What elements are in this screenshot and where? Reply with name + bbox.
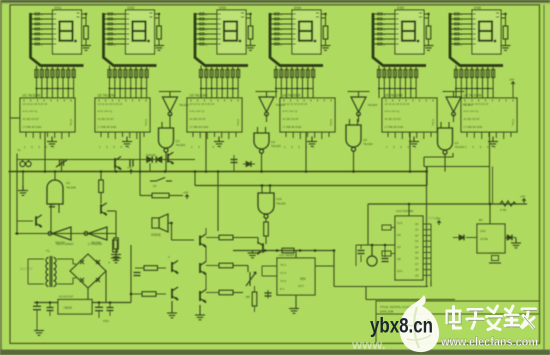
junction xyxy=(98,301,101,304)
svg-text:74LS: 74LS xyxy=(511,119,515,126)
watermark leaf logo xyxy=(400,295,439,352)
feedback wire xyxy=(452,153,454,157)
display DS6 cathode bus xyxy=(455,88,493,90)
wire xyxy=(115,211,117,238)
svg-text:Q3: Q3 xyxy=(397,245,401,249)
ground left xyxy=(18,186,28,196)
svg-text:www.: www. xyxy=(351,337,385,352)
ground for DS1 xyxy=(81,46,91,51)
display DS5 segment wires a-g xyxy=(373,13,395,47)
svg-text:A1 B2 C6 D7: A1 B2 C6 D7 xyxy=(385,117,402,121)
border left band xyxy=(0,0,2,355)
wire bus to audio driver xyxy=(217,172,219,232)
NAND U8B input wire xyxy=(265,127,267,133)
schematic frame right outer line xyxy=(543,5,545,350)
svg-text:Q8: Q8 xyxy=(397,257,401,261)
NAND U8A input wire xyxy=(161,122,163,128)
crystal oscillator module B1 xyxy=(477,224,505,253)
ground R21 xyxy=(111,254,121,263)
wire xyxy=(100,193,102,204)
wire xyxy=(492,167,494,205)
display DS1 cathode bus xyxy=(36,88,74,90)
feedback wire xyxy=(424,166,490,168)
wire to inverter U7B xyxy=(266,92,268,98)
potentiometer RP1 xyxy=(246,272,256,286)
wire xyxy=(61,160,63,172)
svg-text:DS2: DS2 xyxy=(128,6,135,10)
svg-text:DATE 2008: DATE 2008 xyxy=(380,310,394,314)
wire xyxy=(73,277,76,279)
wire xyxy=(295,251,297,259)
trimmer capacitor C1 xyxy=(56,160,67,168)
wire xyxy=(49,311,51,317)
current-limit resistor R6 xyxy=(501,13,508,45)
bus timebase xyxy=(368,203,527,205)
wire +5V rail xyxy=(130,245,132,303)
resistor R18 xyxy=(282,248,294,253)
wire xyxy=(254,306,256,312)
7-segment display DS6 xyxy=(472,6,501,54)
wire xyxy=(453,237,459,239)
wire xyxy=(408,204,410,216)
NAND U8C input wire xyxy=(357,119,359,125)
svg-text:74LS04: 74LS04 xyxy=(368,103,378,107)
wire xyxy=(140,195,152,197)
junction on bus xyxy=(54,170,57,173)
svg-text:U11 NE555: U11 NE555 xyxy=(279,253,295,257)
transformer T1 xyxy=(46,256,56,287)
junction xyxy=(109,301,112,304)
wire to U10 xyxy=(269,186,271,194)
AND gate G1 74LS08 xyxy=(47,180,63,204)
wire to inverter U7A xyxy=(169,92,171,98)
wire U5 to bus xyxy=(409,132,411,172)
svg-text:DS5: DS5 xyxy=(397,6,404,10)
wire inverter chain xyxy=(15,233,116,235)
ground under U3 xyxy=(214,137,224,147)
svg-text:470u: 470u xyxy=(103,319,109,323)
svg-text:a b c d e f g: a b c d e f g xyxy=(190,109,205,113)
IC U12 output pins xyxy=(415,223,431,281)
svg-text:VOICE: VOICE xyxy=(151,233,161,237)
IC U6 74LS248 xyxy=(461,94,517,133)
wire xyxy=(109,311,111,317)
long wire right column xyxy=(426,167,428,287)
ground for DS2 xyxy=(154,46,164,51)
inverter U7A 74LS04 xyxy=(163,97,178,116)
wire xyxy=(262,275,277,277)
wire at inverter U7A input xyxy=(159,91,181,93)
wire left column xyxy=(16,154,18,234)
ground PSU xyxy=(34,331,44,336)
junction xyxy=(489,203,492,206)
wire U1 to bus xyxy=(44,132,46,172)
ground V5 xyxy=(248,250,258,258)
ground V10 xyxy=(167,301,177,318)
junction on bus xyxy=(164,170,167,173)
wire xyxy=(171,223,173,240)
wire xyxy=(57,283,73,285)
display DS1 segment wires a-g xyxy=(31,13,53,47)
bus DC xyxy=(34,302,131,304)
wire xyxy=(205,275,207,290)
svg-text:A1 B2 C6 D7: A1 B2 C6 D7 xyxy=(98,117,115,121)
resistor network RN2 xyxy=(108,66,148,99)
resistor network RN1 xyxy=(35,66,75,99)
capacitor C3 xyxy=(49,204,55,207)
wire xyxy=(205,247,207,262)
transistor V3 9013 xyxy=(101,203,107,215)
IC U5 74LS248 xyxy=(382,94,437,133)
svg-text:OSC: OSC xyxy=(480,229,486,233)
capacitor C8 electrolytic xyxy=(367,245,377,266)
ground under U5 xyxy=(409,137,419,147)
svg-text:74LS04: 74LS04 xyxy=(463,103,473,107)
wire xyxy=(261,266,263,276)
junction on bus xyxy=(305,170,308,173)
junction on bus xyxy=(205,170,208,173)
NAND U8A output wire xyxy=(165,152,167,171)
svg-text:CLK: CLK xyxy=(397,221,403,225)
svg-text:ybx8.cn: ybx8.cn xyxy=(370,315,433,338)
svg-text:OUT: OUT xyxy=(298,284,304,288)
bridge rectifier VD1-VD4 xyxy=(70,254,106,288)
wire xyxy=(253,250,258,252)
wire xyxy=(172,239,195,241)
wire xyxy=(356,244,395,246)
inverter U7C output wire xyxy=(358,114,360,122)
svg-text:A1 B2 C6 D7: A1 B2 C6 D7 xyxy=(23,117,40,121)
inverter U9B 74LS04 xyxy=(84,227,107,240)
junction xyxy=(49,301,52,304)
junction xyxy=(264,249,267,252)
7-segment display DS1 xyxy=(53,6,82,54)
NAND U8B input wire xyxy=(257,127,259,133)
resistor R16 xyxy=(144,266,158,271)
junction on bus xyxy=(194,170,197,173)
wire xyxy=(360,245,362,249)
NAND gate U8D 74LS20 xyxy=(438,128,453,154)
svg-text:U2 74LS248: U2 74LS248 xyxy=(98,94,116,98)
svg-text:A1 B2 C6 D7: A1 B2 C6 D7 xyxy=(190,117,207,121)
wire xyxy=(36,303,38,307)
+5V at R10 xyxy=(185,195,189,200)
svg-text:LT RBI BI GND: LT RBI BI GND xyxy=(190,125,209,129)
ground under U1 xyxy=(47,137,57,147)
wire oscillator row xyxy=(17,159,195,161)
capacitor C5 xyxy=(134,273,141,276)
junction xyxy=(371,244,374,247)
NAND U8D output wire xyxy=(444,154,446,171)
svg-text:S1: S1 xyxy=(153,184,157,188)
junction on bus xyxy=(44,170,47,173)
+5V above U6 xyxy=(511,82,515,87)
resistor R14 xyxy=(219,263,233,268)
wire xyxy=(233,237,258,239)
svg-text:13 12 11 10 9 15 14: 13 12 11 10 9 15 14 xyxy=(23,102,48,106)
svg-text:DS6: DS6 xyxy=(474,6,481,10)
wire xyxy=(139,172,141,196)
watermark brand glyphs 电子发烧友 xyxy=(447,306,536,330)
transistor V10 8550 xyxy=(172,287,178,300)
svg-text:U4 74LS248: U4 74LS248 xyxy=(283,94,301,98)
NAND U8C output wire xyxy=(353,151,355,171)
transistor V9 8550 xyxy=(172,261,178,274)
capacitor C4 xyxy=(231,160,238,163)
svg-text:IN U13 OUT: IN U13 OUT xyxy=(59,295,74,299)
NAND U8D input wire xyxy=(448,122,450,128)
NAND U8D input wire xyxy=(440,122,442,128)
ground V8 xyxy=(195,305,205,320)
transistor V7 8050 xyxy=(200,262,206,275)
wire xyxy=(206,265,219,267)
IC U6 bottom pins xyxy=(467,132,511,139)
svg-text:DS1: DS1 xyxy=(55,6,62,10)
svg-text:74LS: 74LS xyxy=(236,119,240,126)
svg-text:A1 B2 C6 D7: A1 B2 C6 D7 xyxy=(283,117,300,121)
svg-text:RP: RP xyxy=(246,295,250,299)
wire to inverter U7C xyxy=(358,92,360,98)
wire xyxy=(333,251,335,287)
wire xyxy=(384,245,386,257)
capacitor C9 xyxy=(382,259,389,262)
resistor R20 zigzag xyxy=(500,201,516,206)
wire xyxy=(512,86,514,98)
svg-text:LT RBI BI GND: LT RBI BI GND xyxy=(98,125,117,129)
wire mains xyxy=(27,259,29,284)
ground under U6 xyxy=(488,137,498,147)
wire xyxy=(107,210,116,212)
IC U11 NE555 xyxy=(277,258,315,295)
junction on bus xyxy=(115,170,118,173)
wire to U10 xyxy=(261,186,263,194)
wire xyxy=(72,259,74,264)
transistor V2 9013 xyxy=(168,152,173,164)
NAND U8C input wire xyxy=(349,119,351,125)
ground U11 xyxy=(289,309,299,314)
wire U3 to bus xyxy=(205,132,207,172)
wire xyxy=(73,263,76,265)
border top band xyxy=(0,0,550,3)
border bottom band xyxy=(0,350,550,355)
NAND gate U8B 74LS20 xyxy=(254,133,269,153)
bus to NE555 xyxy=(233,250,334,252)
ground R11 xyxy=(111,255,121,260)
junction xyxy=(276,249,279,252)
svg-text:U5 74LS248: U5 74LS248 xyxy=(385,94,403,98)
svg-text:74LS: 74LS xyxy=(69,119,73,126)
wire xyxy=(168,222,172,224)
IC U1 74LS248 xyxy=(20,94,75,133)
bus NET-CARRY xyxy=(195,185,427,187)
+5V at U12 xyxy=(437,221,441,226)
wire xyxy=(254,286,256,292)
wire xyxy=(430,281,432,287)
resistor R11 xyxy=(114,238,119,249)
display DS5 harness bundle xyxy=(373,13,426,66)
NAND U8B output wire xyxy=(261,153,263,171)
transistor V5 9013 xyxy=(257,242,263,254)
resistor network RN4 xyxy=(274,66,314,99)
wire xyxy=(158,267,167,269)
svg-text:U1 74LS248: U1 74LS248 xyxy=(23,94,41,98)
wire bottom2 xyxy=(366,299,455,301)
wire bus to G1 xyxy=(54,172,56,181)
svg-text:+5V: +5V xyxy=(183,191,188,195)
svg-text:555: 555 xyxy=(300,277,306,281)
svg-text:U10: U10 xyxy=(276,197,282,201)
svg-text:U12 CD4060: U12 CD4060 xyxy=(396,209,414,213)
wire xyxy=(265,236,267,244)
svg-text:Y1: Y1 xyxy=(17,148,21,152)
resistor R17 xyxy=(142,292,156,297)
resistor network RN5 xyxy=(377,66,417,99)
svg-text:13 12 11 10 9 15 14: 13 12 11 10 9 15 14 xyxy=(283,102,308,106)
wire at inverter U7D input xyxy=(443,91,465,93)
crystal Y1 32768Hz xyxy=(20,160,31,167)
junction xyxy=(36,301,39,304)
wire xyxy=(205,228,207,234)
svg-text:LT RBI BI GND: LT RBI BI GND xyxy=(23,125,42,129)
svg-text:U6 74LS248: U6 74LS248 xyxy=(464,94,482,98)
svg-text:74LS04: 74LS04 xyxy=(276,103,286,107)
IC U4 pin numbers xyxy=(284,145,315,149)
IC U3 pin numbers xyxy=(191,145,222,149)
svg-text:DS3: DS3 xyxy=(219,6,226,10)
svg-text:G1: G1 xyxy=(66,181,70,185)
wire xyxy=(233,265,248,267)
svg-text:a b c d e f g: a b c d e f g xyxy=(23,109,38,113)
resistor R21 xyxy=(113,240,118,252)
wire xyxy=(114,168,116,172)
current-limit resistor R2 xyxy=(155,13,162,45)
junction on bus xyxy=(425,170,428,173)
capacitor C10 xyxy=(33,306,41,309)
ground under U4 xyxy=(307,137,317,147)
display DS1 harness bundle xyxy=(31,13,84,66)
junction xyxy=(170,222,173,225)
NAND gate U10 74LS20 xyxy=(258,193,274,218)
display DS2 harness bundle xyxy=(104,13,157,66)
resistor network RN3 xyxy=(199,66,239,99)
svg-text:74LS: 74LS xyxy=(144,119,148,126)
IC U1 pin numbers xyxy=(24,145,55,149)
IC U4 74LS248 xyxy=(280,94,335,133)
resistor network RN6 xyxy=(454,66,494,99)
resistor R15 xyxy=(219,290,233,295)
wire xyxy=(49,303,51,308)
junction on bus xyxy=(352,170,355,173)
watermark brand glyph shadows xyxy=(448,310,537,329)
svg-text:U3 74LS248: U3 74LS248 xyxy=(190,94,208,98)
wire xyxy=(194,172,196,186)
current-limit resistor R4 xyxy=(321,13,328,45)
capacitor C2 xyxy=(130,160,133,167)
junction on bus xyxy=(217,170,220,173)
svg-text:AC220V: AC220V xyxy=(20,267,33,271)
wire xyxy=(262,265,277,267)
junction on bus xyxy=(100,170,103,173)
wire xyxy=(233,155,235,172)
svg-text:A1 B2 C6 D7: A1 B2 C6 D7 xyxy=(464,117,481,121)
wire U4 to bus xyxy=(305,132,307,172)
capacitor C12 xyxy=(95,307,103,310)
svg-text:LT RBI BI GND: LT RBI BI GND xyxy=(464,125,483,129)
display DS2 segment wires a-g xyxy=(104,13,126,47)
7-segment display DS2 xyxy=(126,6,155,54)
diode D3 xyxy=(246,161,251,167)
capacitor C11 xyxy=(47,308,54,311)
wire xyxy=(98,303,100,308)
junction xyxy=(408,203,411,206)
junction xyxy=(16,232,19,235)
diode D5 xyxy=(507,235,512,241)
svg-text:74LS08: 74LS08 xyxy=(66,186,76,190)
junction xyxy=(314,249,317,252)
wire bottom xyxy=(334,286,428,288)
capacitor C13 xyxy=(107,308,114,311)
svg-text:a b c d e f g: a b c d e f g xyxy=(98,109,113,113)
display DS6 segment wires a-g xyxy=(450,13,472,47)
display DS6 harness bundle xyxy=(450,13,503,66)
svg-text:TR 2: TR 2 xyxy=(280,263,287,267)
wire at inverter U7B input xyxy=(256,91,278,93)
junction on bus xyxy=(409,170,412,173)
wire G1 input xyxy=(50,204,52,234)
svg-text:13 12 11 10 9 15 14: 13 12 11 10 9 15 14 xyxy=(190,102,215,106)
svg-text:VD1-4 1N4007: VD1-4 1N4007 xyxy=(56,242,74,246)
wire to ground xyxy=(22,172,24,191)
junction xyxy=(384,244,387,247)
7-segment display DS5 xyxy=(395,6,424,54)
display DS4 cathode bus xyxy=(275,88,313,90)
diode D2 1N4148 xyxy=(156,156,161,162)
wire xyxy=(267,290,269,299)
transistor V8 8050 xyxy=(200,290,206,303)
display DS3 cathode bus xyxy=(200,88,238,90)
svg-text:T1: T1 xyxy=(46,249,50,253)
wire xyxy=(466,237,477,239)
svg-text:+5V: +5V xyxy=(520,195,525,199)
svg-text:+5V: +5V xyxy=(127,166,132,170)
7-segment display DS4 xyxy=(292,6,321,54)
wire xyxy=(206,237,219,239)
ground for DS3 xyxy=(246,46,256,51)
inverter U7D output wire xyxy=(453,114,455,122)
wire xyxy=(156,293,166,295)
IC U4 bottom pins xyxy=(286,132,329,139)
wire frame to U1 xyxy=(10,117,20,119)
resistor R10 xyxy=(152,193,169,198)
svg-text:13 12 11 10 9 15 14: 13 12 11 10 9 15 14 xyxy=(98,102,123,106)
NAND gate U8A 74LS20 xyxy=(159,128,174,152)
+5V arrow left xyxy=(129,170,133,175)
ground for DS5 xyxy=(424,46,434,51)
svg-text:R 4: R 4 xyxy=(280,287,285,291)
IC U2 bottom pins xyxy=(101,132,144,139)
wire xyxy=(505,237,507,239)
wire xyxy=(169,195,183,197)
svg-text:LT RBI BI GND: LT RBI BI GND xyxy=(283,125,302,129)
inverter U7C 74LS04 xyxy=(351,97,366,116)
wire xyxy=(494,252,496,254)
wire xyxy=(360,255,362,262)
wire to inverter U7D xyxy=(453,92,455,98)
wire G1 input xyxy=(58,204,60,213)
display DS4 segment wires a-g xyxy=(270,13,292,47)
inverter U7D 74LS04 xyxy=(446,97,461,116)
current-limit resistor R1 xyxy=(82,13,89,45)
